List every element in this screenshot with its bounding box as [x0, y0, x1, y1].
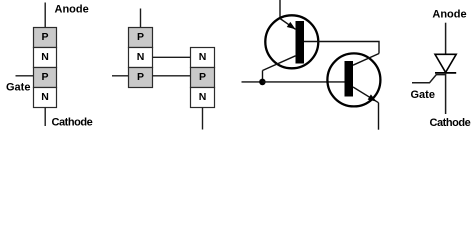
layer N (split model, NPN stack) — [191, 48, 215, 68]
wire Q1 base to Q2 collector — [304, 42, 379, 54]
wire gate (thyristor symbol) — [412, 75, 446, 83]
wire anode (split two-transistor model) — [140, 9, 142, 28]
svg-text:Gate: Gate — [6, 81, 30, 93]
transistor Q2 base bar — [345, 61, 354, 97]
transistor Q2 emitter lead with arrow (NPN, pointing outward) — [353, 87, 379, 104]
wire Q1 collector to gate node — [262, 71, 264, 82]
svg-text:P: P — [199, 71, 206, 83]
wire anode (thyristor symbol) — [445, 23, 447, 55]
thyristor triangle — [435, 54, 456, 72]
wire cathode (thyristor symbol) — [445, 73, 447, 114]
wire gate (layer diagram) — [16, 75, 34, 77]
svg-text:Anode: Anode — [432, 8, 466, 20]
layer N (split model, PNP stack) — [129, 48, 153, 68]
svg-text:Anode: Anode — [55, 4, 89, 16]
svg-text:Cathode: Cathode — [52, 116, 93, 128]
svg-text:N: N — [137, 51, 145, 63]
svg-text:P: P — [41, 71, 48, 83]
wire anode (Q1 emitter lead, circuit) — [279, 0, 281, 19]
wire gate (split model) — [112, 75, 129, 77]
wire cathode (layer diagram) — [44, 108, 46, 127]
layer P anode (split model, PNP stack) — [129, 28, 153, 48]
layer P gate (layer diagram) — [34, 68, 57, 88]
svg-text:N: N — [41, 51, 49, 63]
node gate junction dot — [259, 79, 266, 86]
transistor Q1 collector lead — [263, 56, 296, 71]
transistor Q2 collector lead — [353, 54, 379, 66]
layer P anode (layer diagram) — [34, 28, 57, 48]
transistor Q1 (PNP) circle — [265, 15, 318, 68]
wire N-N link (split model) — [153, 56, 191, 58]
layer P (split model, NPN stack) — [191, 68, 215, 88]
wire P-P link (split model) — [153, 75, 191, 77]
wire gate node to Q2 base — [263, 81, 345, 83]
layer P gate (split model, PNP stack) — [129, 68, 153, 88]
layer N (layer diagram) — [34, 48, 57, 68]
transistor Q1 emitter lead with arrow (PNP, pointing into bar) — [280, 19, 297, 32]
wire cathode (split model) — [202, 108, 204, 130]
svg-text:P: P — [41, 31, 48, 43]
transistor Q1 base bar — [296, 21, 305, 64]
transistor Q2 (NPN) circle — [327, 53, 380, 106]
layer N cathode (split model, NPN stack) — [191, 88, 215, 108]
svg-text:P: P — [137, 71, 144, 83]
svg-text:Gate: Gate — [411, 89, 435, 101]
svg-text:P: P — [137, 31, 144, 43]
wire gate (circuit, left stub) — [242, 81, 263, 83]
svg-text:N: N — [199, 51, 207, 63]
svg-text:N: N — [41, 91, 49, 103]
svg-text:Cathode: Cathode — [430, 117, 471, 129]
layer N cathode (layer diagram) — [34, 88, 57, 108]
svg-text:N: N — [199, 91, 207, 103]
wire cathode (Q2 emitter lead, circuit) — [378, 103, 380, 130]
wire anode (layer diagram) — [44, 3, 46, 28]
thyristor cathode bar — [435, 72, 456, 74]
